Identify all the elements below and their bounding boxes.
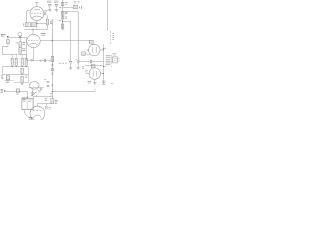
wire left vertical x26.5 — [26, 11, 28, 23]
wire V3 cathode down — [31, 89, 33, 93]
wire V5 left lead — [86, 49, 89, 51]
resistor R9 on x52.4 — [51, 56, 54, 62]
wire node to right — [63, 21, 71, 23]
bus y74.6 — [2, 74, 28, 76]
label 100 row — [59, 62, 67, 64]
vertical line x52.4 — [51, 20, 53, 99]
label of R7 — [22, 43, 25, 45]
component small on bus — [62, 17, 64, 19]
node junction on bus — [62, 21, 63, 22]
grid stopper blob V6 — [91, 65, 95, 68]
tube V3 small envelope — [30, 82, 40, 90]
label right — [25, 76, 28, 77]
label 25 — [50, 22, 52, 23]
capacitor C10 bars — [46, 106, 47, 109]
label 6V6GT — [87, 81, 91, 83]
ground under bus — [61, 29, 64, 31]
wire V2 plate right — [40, 40, 91, 42]
node x52.4 y91.5 — [52, 91, 53, 92]
label 6V6 — [85, 71, 88, 72]
tube V2 envelope — [27, 34, 40, 47]
tube V3 chord wire — [29, 87, 45, 89]
wire volume to grid vertical — [26, 38, 28, 61]
output transformer primary vertical — [102, 45, 104, 85]
bus y66.6 — [2, 66, 28, 68]
wire to screen rail — [63, 11, 79, 13]
resistor row box d — [25, 58, 27, 65]
wire resistor R2 bottom — [46, 25, 48, 30]
wire bus y29.4 — [24, 29, 47, 31]
tube V1 grid (dashed) — [31, 12, 41, 14]
capacitor C7 bottom of x78 — [77, 60, 80, 62]
node input jack — [1, 35, 6, 36]
wire V1 grid to left — [27, 10, 30, 12]
V5 cathode network — [85, 53, 90, 56]
wire y96.2 — [33, 96, 52, 98]
resistor R2 box — [46, 19, 48, 25]
tube V6 internals — [93, 71, 96, 77]
pot knob circle — [18, 32, 22, 36]
battery B1 — [73, 5, 77, 9]
wire junction down to bus — [36, 23, 38, 29]
label 0.1 — [82, 67, 84, 68]
resistor R5 on bus — [61, 12, 64, 16]
label 0.5 — [40, 88, 43, 89]
capacitor C3 top with ground — [54, 1, 59, 2]
left vertical — [1, 67, 3, 75]
wire vertical x78 — [77, 12, 79, 61]
label bottom right of V6 — [102, 81, 106, 84]
wire left L to y46.3 — [2, 47, 8, 55]
speaker terminal box — [113, 57, 118, 63]
label right column small — [112, 33, 114, 39]
resistor row box b — [15, 58, 17, 65]
label under y96 line — [44, 99, 47, 101]
wire AC — [6, 91, 28, 93]
tube V4 rectifier envelope — [30, 106, 45, 121]
wire V5 plate right — [100, 49, 103, 51]
tube V1 envelope — [30, 7, 44, 21]
wire vertical bus x62.6 — [62, 0, 64, 29]
tube V1 top cap lead — [35, 2, 39, 6]
component below bus mid with ground — [21, 76, 24, 82]
label left of R3 — [23, 23, 25, 26]
switch blade — [32, 92, 37, 96]
grid stopper blob V5 — [89, 40, 93, 44]
capacitor C2 top with ground — [47, 1, 52, 2]
fuse box on AC line — [16, 89, 20, 92]
tick left of C4 — [40, 59, 42, 62]
tube V1 plate — [34, 9, 40, 11]
tube V2 cathode arc — [29, 43, 38, 44]
resistor R7 — [19, 42, 22, 47]
resistor R10 bottom of x52.4 — [51, 99, 54, 104]
wire vertical x70.6 — [70, 22, 72, 62]
resistor R3 box — [25, 23, 30, 27]
tube V4 top lead — [36, 104, 38, 107]
resistor row box c — [21, 58, 23, 65]
wire y54.7 — [2, 53, 26, 55]
label right of R10 — [55, 100, 58, 103]
label C1 — [44, 10, 47, 12]
label near top of x52.4 — [50, 22, 52, 23]
wire y61.7 with series cap — [78, 61, 103, 63]
capacitor C8 pair right of V3 — [47, 82, 50, 83]
resistor under jack — [7, 38, 9, 40]
wire V1 cathode down — [36, 20, 38, 23]
wire cathode bus y23.3 — [37, 23, 46, 25]
tube V4 filament arc — [33, 115, 42, 117]
wire V2 cathode down — [33, 48, 35, 61]
wire corner to transformer — [26, 92, 28, 99]
tube V1 cathode arc — [32, 16, 42, 18]
node cathode junction — [36, 23, 37, 24]
wire y65.4 — [85, 65, 103, 67]
label next to bus — [59, 7, 61, 9]
transformer winding bars — [106, 56, 111, 65]
V6 cathode ground — [94, 79, 96, 82]
resistor R8 — [19, 48, 22, 53]
label 6SC7 — [41, 34, 46, 36]
transformer leads to rectifier — [23, 110, 25, 113]
component small on x52.4 — [51, 65, 53, 66]
component below bus left — [7, 75, 9, 76]
wire bus down to V2 top — [32, 29, 34, 34]
dashed continuation — [110, 31, 112, 44]
label + — [50, 94, 52, 95]
tube V4 internal dashes — [33, 109, 42, 111]
capacitor C6 to ground — [69, 60, 72, 62]
tube V5 envelope — [89, 44, 100, 55]
capacitor C4 series mid — [44, 59, 45, 62]
tiny label far right — [111, 83, 114, 85]
B+ vertical top right — [106, 0, 108, 31]
node plate junction — [52, 40, 53, 41]
label (B) — [30, 59, 33, 61]
capacitor C1 bars right of V1 — [45, 12, 46, 15]
label of R5 — [65, 12, 68, 14]
winding taps — [103, 49, 106, 67]
wire cathode bus y60.4 — [27, 59, 45, 61]
wire y103.7 to R10 — [37, 103, 52, 105]
resistor R6 on bus — [61, 24, 63, 28]
label 5Y3 — [29, 117, 33, 119]
node on bus — [32, 29, 33, 30]
small box left edge — [1, 76, 3, 79]
core dashes — [111, 55, 113, 67]
wire y82 — [14, 82, 29, 84]
tube V6 envelope — [89, 68, 100, 79]
label left of node — [59, 20, 62, 22]
wire corner down to V4 — [32, 97, 34, 107]
horizontal y91.5 cathode return — [52, 91, 95, 93]
leads above boxes — [12, 55, 26, 59]
component on bus top — [61, 2, 63, 6]
wire V6 plate right — [101, 73, 104, 75]
tube V5 internals — [93, 47, 96, 53]
wire cap to resistor — [46, 15, 48, 19]
resistor row box a — [11, 58, 13, 65]
AC line input — [0, 89, 3, 92]
wire to battery — [63, 7, 74, 9]
resistor R4 box — [31, 23, 36, 27]
ground under V3 — [31, 93, 34, 95]
node x52.4 y85 — [52, 84, 53, 85]
wire input — [9, 37, 27, 39]
right vertical x28.4 — [27, 67, 29, 83]
capacitor C9 series — [90, 60, 91, 63]
power transformer T1 box — [22, 98, 33, 109]
label PWR — [22, 98, 26, 100]
wire y80.4 — [5, 80, 14, 82]
tube V2 grid dashed — [28, 40, 38, 42]
wire V6 left lead — [86, 73, 90, 75]
component between buses — [21, 68, 24, 73]
label above box — [112, 53, 116, 55]
